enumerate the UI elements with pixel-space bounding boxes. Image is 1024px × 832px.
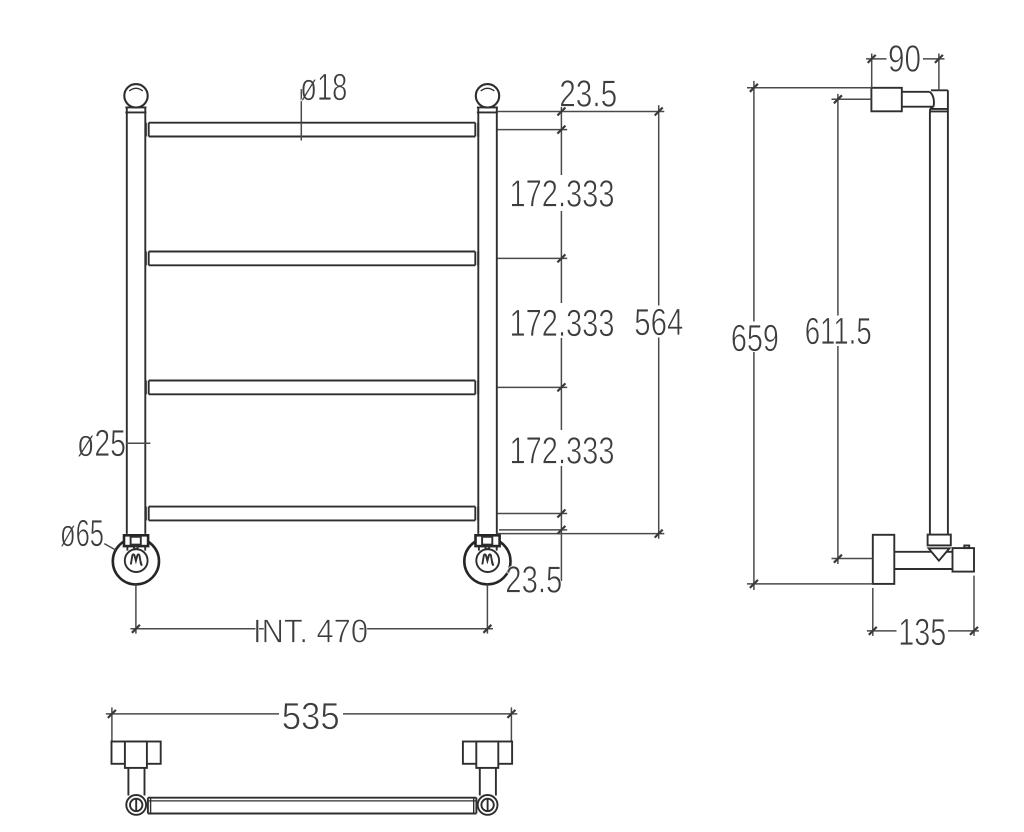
ext line 23.5 bottom (499, 529, 567, 531)
dim 535 line (106, 713, 517, 715)
dim line 564 (658, 105, 660, 539)
right post ball finial (476, 84, 499, 107)
left post collar (125, 107, 146, 112)
vertical tube left edge (929, 111, 931, 534)
INT 470 ticks (132, 625, 492, 633)
label ø25 leader (126, 442, 150, 444)
dim 659 line (753, 81, 755, 590)
dim 659 ticks (750, 84, 758, 588)
bottom horizontal tube (894, 552, 952, 569)
INT 470 ext line left (135, 585, 137, 634)
dim line chain 23.5/172.333 (560, 105, 562, 581)
right post stub (bottom view) (480, 768, 496, 796)
right end cap slot (487, 799, 489, 810)
elbow inner fillet (930, 107, 934, 112)
left plate (bottom view) (112, 742, 161, 764)
dim 135 line (867, 630, 979, 632)
svg-text:23.5: 23.5 (505, 559, 562, 601)
svg-text:535: 535 (282, 696, 340, 738)
dim 135 ticks (869, 627, 978, 635)
svg-text:659: 659 (731, 318, 779, 360)
right flange neck lines (479, 546, 497, 550)
left post stub (bottom view) (128, 768, 144, 796)
right post collar (477, 107, 498, 112)
INT 470 dim line (130, 628, 493, 630)
left post ball finial (124, 84, 147, 107)
svg-text:172.333: 172.333 (510, 174, 615, 216)
bar 1 (146, 123, 478, 137)
right flange M mark (482, 554, 493, 565)
svg-text:611.5: 611.5 (805, 311, 872, 353)
elbow outer corner (931, 90, 948, 534)
left end cap inner circle (130, 799, 142, 811)
cone valve (929, 548, 950, 560)
left flange bracket slot (131, 537, 141, 545)
dim 135 ext lines (873, 576, 974, 636)
left flange bracket (124, 535, 148, 546)
dim 535 ext lines (112, 707, 512, 741)
ticks 564 (655, 108, 663, 538)
left flange inner circle (125, 549, 148, 572)
left end cap slot (135, 799, 137, 810)
ext line bar2 center (497, 257, 567, 259)
right flange outer circle (464, 538, 510, 584)
left flange M mark (131, 554, 142, 565)
label ø65 leader (104, 544, 116, 551)
ext line bar1 center (497, 129, 567, 131)
right boss (bottom view) (476, 742, 498, 768)
label ø18 leader (300, 89, 302, 141)
valve block (953, 548, 975, 572)
elbow joint lines (930, 109, 948, 112)
left flange neck lines (127, 546, 145, 550)
dim 611.5 ticks (834, 95, 842, 562)
svg-text:172.333: 172.333 (510, 303, 615, 345)
bar 2 (146, 252, 478, 266)
dim 90 ext lines (872, 54, 939, 91)
bottom collar (928, 535, 951, 546)
left flange tab (134, 546, 138, 549)
ext line top of posts (497, 111, 664, 113)
right flange bracket (476, 535, 500, 546)
dim 90 line (866, 58, 945, 60)
right flange bracket slot (482, 537, 492, 545)
left flange outer circle (113, 538, 159, 584)
ext line bottom of posts (497, 533, 664, 535)
left end cap circle (126, 795, 146, 815)
svg-text:INT. 470: INT. 470 (253, 613, 368, 650)
svg-text:564: 564 (634, 302, 683, 344)
wall plate bottom (873, 535, 895, 584)
svg-text:135: 135 (898, 612, 946, 654)
dim 90 ticks (868, 55, 943, 63)
wall bracket top (871, 88, 901, 112)
dim 611.5 line (837, 94, 839, 564)
INT 470 ext line right (486, 585, 488, 634)
dim 535 ticks (108, 710, 516, 718)
svg-text:90: 90 (888, 39, 921, 81)
right flange tab (486, 546, 490, 549)
svg-text:ø25: ø25 (77, 423, 126, 465)
bar 4 (146, 507, 478, 521)
valve block top screw (964, 546, 969, 549)
left boss (bottom view) (125, 742, 147, 768)
top horizontal tube (902, 92, 934, 107)
right post tube (478, 107, 497, 534)
right flange inner circle (476, 549, 499, 572)
elbow weld curve (930, 92, 934, 107)
svg-text:172.333: 172.333 (510, 430, 615, 472)
bar (bottom view) (148, 798, 477, 814)
dim 611.5 ext lines (832, 99, 873, 558)
ext line bar3 center (497, 386, 567, 388)
svg-text:23.5: 23.5 (559, 74, 617, 116)
right plate (bottom view) (463, 742, 512, 764)
left post tube (127, 107, 146, 534)
right end cap circle (478, 795, 498, 815)
svg-text:ø65: ø65 (60, 513, 104, 555)
right end cap inner circle (481, 799, 493, 811)
ext line bar4 center (497, 513, 567, 515)
svg-text:ø18: ø18 (300, 67, 347, 109)
dim 659 ext lines (747, 88, 873, 584)
ticks chain A (557, 108, 565, 534)
bar 3 (146, 381, 478, 395)
